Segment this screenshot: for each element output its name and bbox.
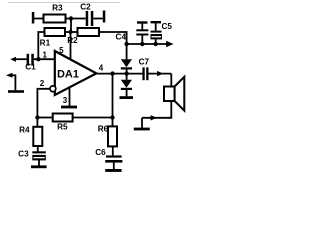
wire output branch down (112, 74, 114, 118)
capacitor C1 (25, 54, 36, 72)
terminal bar right of C2 (103, 11, 106, 23)
node diode-output junction (124, 71, 128, 75)
wire pin 5 (70, 32, 72, 60)
capacitor C2 (80, 3, 93, 27)
wire R5 to R6 node (73, 117, 113, 119)
wire (66, 18, 86, 20)
resistor R6 (98, 118, 117, 147)
wire diode to ground (126, 90, 128, 96)
capacitor C4 (116, 21, 149, 44)
capacitor C6 (95, 148, 122, 163)
svg-text:R5: R5 (57, 122, 68, 131)
wire output (96, 73, 142, 75)
svg-text:R4: R4 (19, 126, 30, 135)
wire pin 3 (69, 88, 71, 107)
node R5-R6-output junction (110, 115, 114, 119)
wire speaker bottom lead (142, 101, 171, 118)
ground C3 (31, 165, 47, 168)
power rail (127, 43, 168, 45)
resistor R3 (44, 3, 66, 22)
wire C6 to ground (113, 163, 115, 170)
wire (93, 18, 103, 20)
svg-text:C5: C5 (162, 22, 173, 31)
op-amp DA1 (50, 51, 96, 95)
svg-text:C7: C7 (139, 58, 150, 67)
node feedback junction left (35, 115, 39, 119)
node C5-rail (154, 42, 158, 46)
terminal bar left (32, 12, 35, 24)
wire vertical junction to R1-R2 (70, 19, 72, 33)
node input junction (36, 57, 40, 61)
svg-text:C2: C2 (80, 3, 91, 12)
speaker BA1 (164, 77, 184, 111)
wire pin 2 (37, 89, 50, 118)
resistor R2 (67, 28, 99, 45)
svg-text:4: 4 (99, 63, 104, 72)
capacitor C5 electrolytic (151, 21, 173, 44)
diode VD2 (121, 80, 132, 90)
wire (34, 18, 44, 20)
supply arrow (166, 41, 173, 48)
svg-text:C3: C3 (18, 150, 29, 159)
ground diodes (120, 96, 134, 99)
svg-text:R2: R2 (67, 36, 78, 45)
svg-text:R6: R6 (98, 124, 109, 133)
node rail-diode junction (124, 42, 128, 46)
node R3-C2 junction (69, 16, 73, 20)
svg-text:1: 1 (42, 51, 47, 60)
wire R2 to supply rail corner (99, 32, 127, 59)
wire C7 to speaker (149, 73, 172, 75)
node output-R6 branch (110, 71, 114, 75)
svg-text:C1: C1 (25, 63, 36, 72)
terminal arrow marker top (157, 71, 163, 76)
svg-text:C4: C4 (116, 33, 127, 42)
node pin5 junction (68, 30, 72, 34)
wire between diodes (126, 70, 128, 80)
svg-text:2: 2 (40, 79, 45, 88)
wire R1 left lead down to input node (38, 32, 44, 59)
ground C6 (105, 169, 121, 172)
svg-text:R1: R1 (40, 38, 51, 47)
svg-text:DA1: DA1 (57, 69, 79, 81)
capacitor C3 electrolytic (18, 150, 46, 161)
ground input common with arrow (6, 73, 24, 93)
terminal arrow marker bottom (151, 115, 157, 120)
node C4-rail (140, 42, 144, 46)
input terminal arrow (10, 57, 26, 62)
svg-text:R3: R3 (52, 3, 63, 12)
wire R4 to C3 (37, 146, 39, 151)
ground pin 3 (61, 106, 77, 109)
wire speaker top lead (170, 74, 172, 87)
wire to R5 (37, 117, 52, 119)
wire C3 to ground (38, 159, 40, 165)
resistor R1 (40, 28, 65, 47)
ground speaker return (134, 118, 150, 131)
wire R1 to R2 (65, 31, 78, 33)
resistor R5 (53, 114, 73, 132)
svg-text:3: 3 (63, 96, 68, 105)
wire C1 to pin1 (34, 58, 55, 60)
diode VD1 (121, 59, 132, 69)
resistor R4 (19, 118, 42, 147)
wire R6 to C6 (112, 146, 114, 155)
capacitor C7 (139, 58, 150, 81)
svg-text:C6: C6 (95, 148, 106, 157)
